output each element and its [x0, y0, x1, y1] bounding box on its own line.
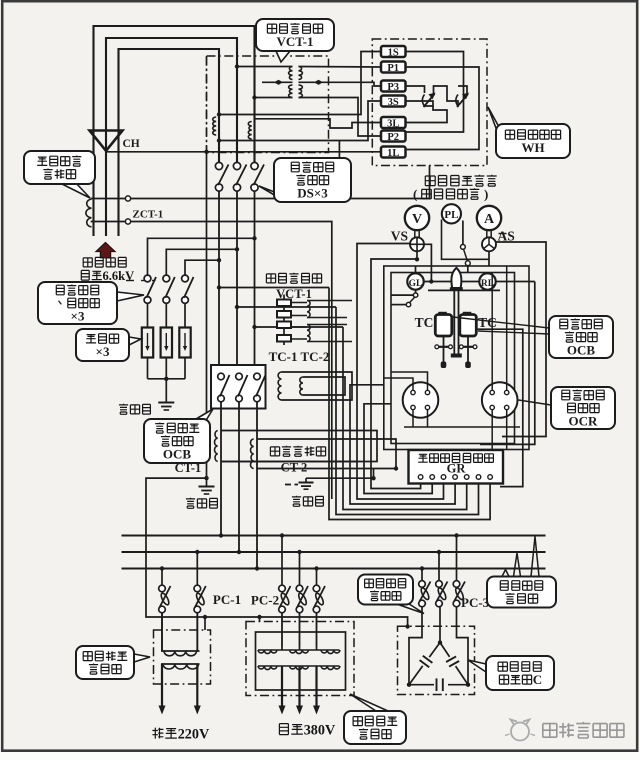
- svg-text:TC-1 TC-2: TC-1 TC-2: [269, 349, 330, 364]
- disconnect switch DS phase C: [215, 162, 222, 169]
- callout bubble manual operated breaker OCB: [196, 409, 213, 422]
- svg-text:CH: CH: [123, 138, 140, 150]
- wire voltage tap phase A to panel: [219, 287, 329, 289]
- OCB pole B: [236, 373, 243, 380]
- svg-text:(: (: [413, 187, 417, 202]
- HV compensation capacitor enclosure: [398, 626, 475, 694]
- three-phase transformer secondary windings: [258, 665, 340, 667]
- label HV input 3-phase 6.6kV: [83, 258, 92, 267]
- label metering transformer VCT-1 middle: [266, 274, 275, 283]
- VT leads to terminal blocks right: [299, 66, 382, 69]
- OCB pole A: [218, 373, 225, 380]
- svg-text:GR: GR: [447, 462, 467, 476]
- svg-text:380V: 380V: [304, 723, 336, 739]
- ammeter switch AS: [486, 230, 488, 237]
- svg-text:220V: 220V: [178, 727, 210, 743]
- GR terminals: [418, 475, 423, 480]
- disconnect switch DS phase A: [251, 162, 258, 169]
- terminal block 3S: [381, 96, 406, 107]
- ground electrode symbol CT-2: [299, 482, 314, 484]
- single-phase transformer windings: [161, 650, 200, 652]
- fused cutout PC-1 pole 2: [196, 552, 198, 585]
- indicator lamp GL: [407, 273, 423, 289]
- callout bubble overcurrent protection breaker DS x3: [259, 186, 283, 200]
- wire below relays: [404, 426, 520, 428]
- wire AS to right riser: [496, 242, 546, 437]
- fused cutout PC-1 pole 1: [161, 569, 163, 586]
- breaker operating handle: [451, 268, 461, 288]
- metering enclosure WH (dash-dot box): [372, 39, 487, 166]
- PL lamp legs and switch: [442, 220, 490, 260]
- svg-text:PC-3: PC-3: [461, 595, 490, 610]
- overcurrent relay OCR right: [482, 382, 518, 418]
- wire outputs three phase 380V: [281, 666, 283, 706]
- svg-text:PC-1: PC-1: [213, 592, 241, 607]
- terminal block 1S: [381, 46, 406, 57]
- ZCT secondary wires to GR: [91, 198, 126, 200]
- WH wiring loops right of blocks: [406, 52, 464, 133]
- terminal block 1L: [381, 147, 406, 158]
- voltmeter V: [405, 206, 429, 230]
- wire TC right to riser: [476, 329, 523, 486]
- label single-phase 220V: [152, 728, 163, 739]
- svg-text:1S: 1S: [388, 47, 399, 58]
- arrester switch 2: [163, 275, 170, 282]
- wire VS to junction: [416, 251, 418, 259]
- callout bubble HV single-phase transformer: [134, 654, 150, 662]
- arrester switch 3: [182, 275, 189, 282]
- wire arresters common to ground: [147, 358, 149, 379]
- watermark logo: [505, 720, 535, 741]
- svg-text:CT-1: CT-1: [175, 461, 202, 475]
- svg-text:3S: 3S: [388, 97, 399, 108]
- svg-text:): ): [484, 187, 488, 202]
- current transformer CT-1 coil: [215, 431, 218, 462]
- ground electrode symbol arresters: [158, 402, 174, 404]
- wire RL riser right: [480, 282, 535, 445]
- svg-text:3L: 3L: [387, 118, 399, 129]
- svg-text:×3: ×3: [96, 344, 110, 359]
- fused cutout PC-2 pole 2: [299, 552, 301, 585]
- breaker rods: [453, 291, 455, 354]
- wire crossbar under lamps: [428, 289, 500, 291]
- svg-text:×3: ×3: [71, 308, 85, 323]
- callout bubble overcurrent protection breaker OCB: [453, 317, 549, 328]
- CT-2 ground branch: [306, 477, 374, 479]
- svg-text:1L: 1L: [387, 148, 399, 159]
- three-phase transformer tank box: [256, 632, 346, 690]
- svg-text:A: A: [484, 212, 495, 227]
- bus phase A: [122, 535, 546, 537]
- wire phase B incoming loop: [106, 38, 237, 162]
- wire bundle risers to panel and GR: [329, 288, 490, 520]
- zero-sequence CT ZCT-1 core: [86, 199, 92, 227]
- disconnect switch DS phase B: [233, 162, 240, 169]
- pilot lamp PL: [442, 204, 461, 223]
- fused cutout PC-2 pole 1: [281, 536, 283, 586]
- svg-text:CT-2: CT-2: [281, 461, 308, 475]
- label HV monitoring panel: [425, 176, 435, 186]
- callout bubble zero sequence current transformer: [62, 182, 90, 198]
- fused cutout PC-2 pole 3: [316, 569, 318, 586]
- VCT-1 unit enclosure (dash-dot): [207, 56, 329, 153]
- auxiliary switch under GL: [413, 293, 417, 297]
- surge arrester 2: [161, 328, 172, 358]
- svg-text:ZCT-1: ZCT-1: [133, 209, 164, 221]
- svg-text:TC: TC: [478, 315, 497, 330]
- svg-text:OCB: OCB: [567, 342, 596, 357]
- wire outputs single phase 220V: [161, 664, 163, 706]
- fuse chain of VCT secondary: [283, 295, 285, 346]
- svg-text:PC-2: PC-2: [251, 593, 279, 608]
- svg-text:OCB: OCB: [163, 446, 192, 461]
- svg-text:OCR: OCR: [569, 413, 599, 428]
- transformer TT windings with loops: [278, 372, 281, 400]
- CT-2 secondary loop: [257, 439, 396, 469]
- wire voltage tap phase C to panel: [255, 326, 344, 328]
- trip coil TC right: [460, 315, 477, 337]
- HV three-phase transformer enclosure: [246, 622, 354, 696]
- ground electrode of measuring common: [204, 476, 208, 480]
- HV input red arrow symbol: [96, 243, 115, 258]
- three-phase transformer primary windings: [258, 649, 340, 651]
- bus phase C: [122, 568, 546, 570]
- terminal block P1: [381, 62, 406, 73]
- surge arrester 1: [142, 328, 153, 358]
- svg-text:VCT-1: VCT-1: [276, 34, 313, 49]
- surge arrester 3: [179, 328, 190, 358]
- indicator lamp RL: [479, 273, 495, 289]
- fused cutout PC-3 pole 2: [438, 552, 440, 581]
- svg-text:GL: GL: [409, 279, 423, 289]
- current transformer CT-2 coil: [251, 439, 254, 469]
- overcurrent relay OCR left: [403, 382, 439, 418]
- callout bubble three-wire HV terminal board with spikes: [502, 570, 509, 577]
- HV single-phase transformer enclosure: [154, 630, 211, 684]
- CT secondary loop wires to terminal blocks: [219, 52, 381, 115]
- VCT secondary windings TC-1: [307, 301, 310, 318]
- svg-text:P3: P3: [387, 82, 399, 93]
- voltage transformer VT windings of VCT-1: [289, 67, 293, 80]
- svg-text:VS: VS: [391, 229, 408, 244]
- voltmeter switch VS: [414, 230, 416, 237]
- terminal block 3L: [381, 117, 406, 128]
- WH meter element 1: [424, 94, 435, 107]
- wire arrester tap phase C: [185, 260, 219, 275]
- wire arrester tap phase A: [148, 238, 255, 274]
- WH meter element 2: [457, 94, 468, 107]
- svg-text:PL: PL: [444, 209, 458, 221]
- label ground electrode CT-2: [292, 496, 301, 507]
- CT-1 secondary loop: [221, 431, 377, 462]
- label current transformer CT-2: [270, 447, 279, 456]
- callout bubble overcurrent relay x3: [117, 292, 144, 301]
- VT secondary arms with diamonds: [262, 81, 293, 83]
- ammeter A: [477, 206, 501, 230]
- metering CT on phase A: [213, 117, 216, 135]
- arrester switch 1: [144, 275, 151, 282]
- delta legs with capacitors: [409, 643, 440, 685]
- svg-text:P2: P2: [387, 132, 399, 143]
- callout bubble overcurrent protection relay OCR: [519, 400, 552, 405]
- capacitor delta wiring: [409, 607, 422, 685]
- callout bubble watt-hour meter WH: [488, 107, 499, 136]
- wire phase A incoming loop: [94, 26, 255, 162]
- wire phase C incoming loop: [119, 49, 220, 162]
- VT primary lead bottom to phase C: [255, 97, 293, 99]
- terminal block P2: [381, 131, 406, 142]
- svg-text:WH: WH: [521, 140, 544, 155]
- wire phases OCB down to buses: [220, 402, 222, 536]
- wire voltage tap phase B to panel: [237, 306, 336, 308]
- cable head CH triangle: [90, 131, 123, 151]
- callout bubble HV protection breaker: [398, 602, 424, 614]
- svg-text:C: C: [533, 672, 542, 687]
- fused cutout PC-3 pole 3: [456, 536, 458, 581]
- callout bubble HV three-phase transformer: [350, 694, 388, 711]
- svg-text:P1: P1: [387, 63, 399, 74]
- earthing loop to transformer secondary: [146, 478, 408, 626]
- fused cutout PC-3 pole 1: [421, 569, 423, 581]
- VT primary lead top to phase B: [237, 66, 293, 68]
- OCB pole C: [254, 373, 261, 380]
- wire measuring common from CH line down to ground: [206, 56, 208, 152]
- delta bottom with capacitor: [409, 684, 468, 686]
- wire arrester tap phase B: [166, 249, 237, 274]
- svg-text:V: V: [412, 212, 422, 227]
- callout bubble metering transformer VCT-1 top: [276, 51, 290, 62]
- wire phase lines through cable head down to input: [92, 131, 94, 236]
- label ground electrode left: [119, 404, 128, 415]
- leakage protection relay GR box: [409, 450, 504, 484]
- manually operated circuit breaker OCB box: [211, 365, 266, 409]
- panel wiring rectangle inner: [391, 273, 515, 444]
- callout bubble surge arrester x3: [129, 337, 141, 345]
- metering CT on phase C: [248, 122, 251, 140]
- trip coil TC left: [435, 315, 452, 337]
- watermark text: [543, 724, 557, 738]
- wire from CH apex to metering 1L: [106, 151, 381, 153]
- svg-text:TC: TC: [415, 315, 434, 330]
- wire VS right to GL riser: [424, 244, 431, 281]
- terminal block P3: [381, 81, 406, 92]
- panel wiring rectangle outer: [384, 266, 529, 450]
- VCT secondary windings TC-2: [307, 325, 310, 342]
- label three-phase 380V: [279, 724, 288, 735]
- svg-text:DS×3: DS×3: [297, 185, 328, 200]
- callout bubble HV compensation capacitor: [468, 660, 486, 672]
- bus phase B: [122, 551, 546, 553]
